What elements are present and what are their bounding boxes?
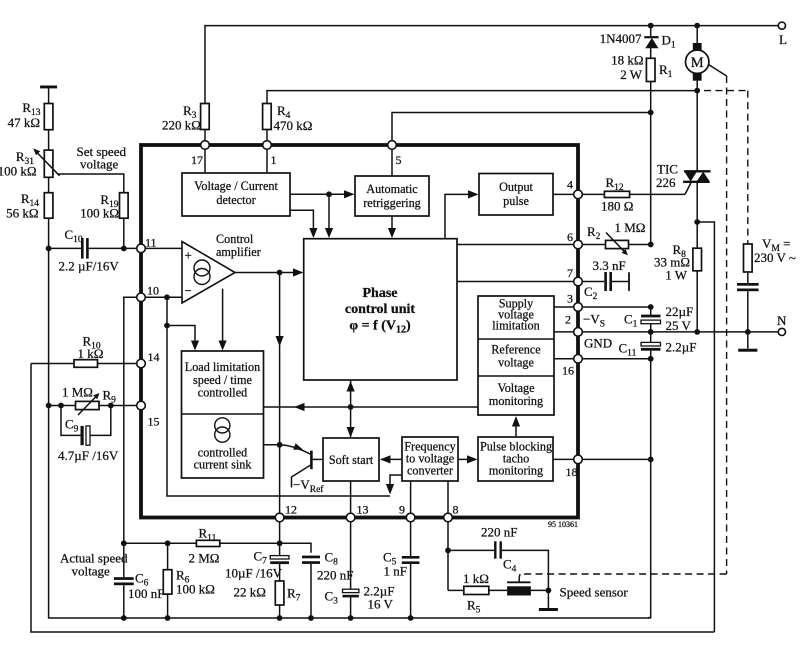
svg-text:100 nF: 100 nF xyxy=(128,586,164,601)
node: R2 junction xyxy=(648,242,654,248)
svg-text:1 MΩ: 1 MΩ xyxy=(615,220,646,235)
potentiometer R31 set speed xyxy=(0,148,60,192)
block: Load limitation speed/time controlled + controlled current sink xyxy=(182,351,264,478)
node: junction rail C3 bottom xyxy=(348,615,354,621)
pin 7 xyxy=(567,266,582,286)
svg-text:limitation: limitation xyxy=(492,319,539,333)
earth bar at N rail xyxy=(738,332,757,352)
wire: motor to triac xyxy=(696,91,698,172)
pin 17 xyxy=(191,141,209,167)
wire: pin 8 down xyxy=(447,518,449,591)
motor M xyxy=(686,26,709,91)
svg-text:22 kΩ: 22 kΩ xyxy=(234,585,266,600)
wire: R1 column down to R2 node xyxy=(650,113,652,245)
node: junction at soft-start transistor emitter xyxy=(277,442,283,448)
svg-text:3: 3 xyxy=(567,292,573,306)
block: Automatic retriggering xyxy=(355,176,429,216)
wire: pin 18 to column xyxy=(578,458,651,460)
node: junction on inverting input xyxy=(164,294,170,300)
wire: current sink to transistor emitter junction xyxy=(264,444,280,446)
pin 2 xyxy=(565,313,582,337)
block: Frequency to voltage converter xyxy=(402,437,458,481)
node: junction R6 top xyxy=(165,540,171,546)
svg-text:2 MΩ: 2 MΩ xyxy=(189,551,220,566)
svg-text:voltage: voltage xyxy=(72,564,110,579)
snubber wire xyxy=(747,272,749,283)
potentiometer R2 xyxy=(578,220,651,255)
svg-text:14: 14 xyxy=(148,350,160,364)
capacitor C6 xyxy=(114,543,165,618)
svg-text:1: 1 xyxy=(271,153,277,167)
wire: frequency converter output elbow with down arrow xyxy=(386,475,402,495)
wire: reference voltage to pin 16 xyxy=(554,358,578,360)
svg-text:56 kΩ: 56 kΩ xyxy=(6,206,38,221)
wire: triac to R8 node xyxy=(696,182,698,248)
wire: pin 11 to op-amp + input xyxy=(141,247,182,249)
svg-text:4: 4 xyxy=(567,178,573,192)
resistor R8 xyxy=(654,242,702,332)
node: junction on detector output xyxy=(326,191,332,197)
node: C1 top junction xyxy=(648,304,654,310)
svg-text:470 kΩ: 470 kΩ xyxy=(274,118,313,133)
capacitor C10 xyxy=(49,227,141,274)
wire: phase unit top to Output pulse with arrow xyxy=(445,190,479,238)
block: Phase control unit xyxy=(304,239,457,380)
node: junction R19 bottom xyxy=(121,246,127,252)
capacitor C2 xyxy=(578,258,630,302)
diode D1 1N4007 xyxy=(600,26,676,59)
svg-text:Speed sensor: Speed sensor xyxy=(560,585,629,600)
wire: pulse blocking to pin 18 xyxy=(553,458,578,460)
speed sensor xyxy=(507,582,628,599)
terminal N xyxy=(778,328,785,335)
node: junction pin16 row xyxy=(648,356,654,362)
wire: Output pulse to pin 4 xyxy=(553,193,578,195)
wire: pin 10 feedback to actual speed node xyxy=(124,297,141,543)
wire: freq converter down to pin 9 xyxy=(410,481,412,518)
svg-text:18: 18 xyxy=(566,465,578,479)
svg-text:voltage: voltage xyxy=(80,157,118,172)
wire: wiper tap to R19 xyxy=(58,174,124,193)
wire: R4 top rail xyxy=(267,91,697,108)
wire: elbow into load limitation box with arrow xyxy=(167,326,199,351)
internal wire: pin5 to Automatic retriggering xyxy=(391,145,393,176)
wire: pin5 sync rail xyxy=(392,113,651,146)
node: motor top junction xyxy=(694,23,700,29)
op-amp control amplifier xyxy=(182,232,261,303)
svg-text:Voltage: Voltage xyxy=(497,381,534,395)
svg-text:5: 5 xyxy=(396,153,402,167)
svg-text:−: − xyxy=(185,283,192,298)
pin 9 xyxy=(399,503,415,522)
capacitor C4 xyxy=(448,525,548,609)
svg-text:9: 9 xyxy=(399,503,405,517)
svg-text:+: + xyxy=(185,248,192,263)
wire: soft start down to pin 13 xyxy=(350,481,352,518)
svg-text:control unit: control unit xyxy=(345,302,415,317)
node: junction C9 right xyxy=(108,403,114,409)
potentiometer R9 xyxy=(49,385,141,416)
capacitor C5 xyxy=(383,550,419,619)
node: junction C4 left xyxy=(445,548,451,554)
svg-text:10: 10 xyxy=(147,284,159,298)
svg-text:monitoring: monitoring xyxy=(489,394,543,408)
wire: ground column down xyxy=(648,359,651,618)
svg-text:Load limitation: Load limitation xyxy=(185,360,260,374)
wire: phase unit to soft start vertical with both arrows xyxy=(347,380,355,438)
svg-text:8: 8 xyxy=(453,503,459,517)
node: junction triac bottom on N rail xyxy=(694,329,700,335)
node: junction feedback branch xyxy=(164,323,170,329)
node: junction pin18 row xyxy=(648,457,654,463)
block: Output pulse xyxy=(479,174,553,216)
pin 13 xyxy=(346,503,368,522)
wire: N rail xyxy=(578,331,778,333)
svg-text:pulse: pulse xyxy=(503,194,529,208)
resistor R7 xyxy=(234,581,301,618)
resistor R3 xyxy=(162,103,209,145)
wire: pin 16 GND to column xyxy=(578,358,651,360)
node: junction sensor right xyxy=(546,588,552,594)
wire: retriggering output down into phase control unit xyxy=(388,216,396,238)
wire: voltage monitoring to load limitation with left arrow xyxy=(264,403,479,411)
resistor R1 xyxy=(611,53,673,113)
svg-text:220 kΩ: 220 kΩ xyxy=(162,118,201,133)
wire: pin 3 to C1 xyxy=(578,306,651,308)
capacitor C9 electrolytic parallel loop xyxy=(58,406,119,464)
node: junction rail left C6 xyxy=(121,540,127,546)
wire: pin 13 down xyxy=(350,518,352,590)
pin 3 xyxy=(567,292,582,312)
resistor R5 xyxy=(448,571,507,616)
node: junction C9 left xyxy=(58,403,64,409)
pin 6 xyxy=(567,230,582,249)
svg-text:22µF: 22µF xyxy=(666,304,694,319)
capacitor C1 electrolytic xyxy=(624,304,693,333)
svg-text:17: 17 xyxy=(191,153,203,167)
wire: freq converter down to pin 8 xyxy=(447,481,449,518)
wire: op-amp underside into load limitation box with arrow xyxy=(219,289,227,351)
capacitor C8 xyxy=(302,550,353,619)
svg-text:retriggering: retriggering xyxy=(363,196,421,210)
node: D1 top junction xyxy=(648,23,654,29)
svg-text:1 nF: 1 nF xyxy=(384,564,407,579)
node: junction on monitoring line xyxy=(348,404,354,410)
wire: V/C detector output to retriggering with arrow xyxy=(290,190,355,198)
wire: phase unit to pin 6 xyxy=(457,244,578,246)
wire: pulse blocking up to voltage monitoring with arrow xyxy=(512,416,520,437)
svg-text:Automatic: Automatic xyxy=(366,182,418,196)
wire: pin 10 to op-amp - input xyxy=(141,296,182,298)
svg-text:1 kΩ: 1 kΩ xyxy=(463,571,489,586)
capacitor C11 electrolytic xyxy=(619,332,697,359)
internal wire: pin1 to V/C detector xyxy=(266,145,268,173)
svg-text:3.3 nF: 3.3 nF xyxy=(593,258,626,273)
wire: actual speed voltage rail xyxy=(124,543,311,553)
pin 4 xyxy=(567,178,582,199)
svg-text:18 kΩ: 18 kΩ xyxy=(611,53,643,68)
svg-text:100 kΩ: 100 kΩ xyxy=(176,582,215,597)
node: junction rail C8 bottom xyxy=(308,615,314,621)
svg-text:10µF /16V: 10µF /16V xyxy=(225,566,283,581)
svg-text:2: 2 xyxy=(565,313,571,327)
wire: op-amp output down to pin 12 with mid arrow xyxy=(276,273,284,518)
node: junction rail C5 bottom xyxy=(408,615,414,621)
node: junction R1 bottom rail xyxy=(648,110,654,116)
svg-text:current sink: current sink xyxy=(194,458,253,472)
dashed motor shaft link xyxy=(519,65,726,583)
node: junction rail C6 bottom xyxy=(121,615,127,621)
wire: supply limitation to pin 2 xyxy=(554,331,578,333)
svg-text:controlled: controlled xyxy=(198,386,247,400)
pin 18 xyxy=(566,455,583,479)
wire: V/C detector second output elbow into phase control unit xyxy=(290,210,318,238)
svg-text:230 V ~: 230 V ~ xyxy=(754,250,796,265)
wire: feedback line down to frequency converter xyxy=(167,326,390,497)
wire: sense line jog to rail xyxy=(697,222,714,632)
svg-text:Soft start: Soft start xyxy=(329,453,374,467)
svg-text:226: 226 xyxy=(656,175,676,190)
transistor Q1 soft start xyxy=(280,443,323,487)
wire: mains L rail top xyxy=(205,26,778,108)
pin 16 xyxy=(562,355,582,378)
svg-text:monitoring: monitoring xyxy=(489,464,543,478)
snubber network dashed feed xyxy=(704,90,748,92)
svg-text:1 MΩ: 1 MΩ xyxy=(62,385,93,400)
wire: column down to ground rail xyxy=(49,406,651,619)
pin 12 xyxy=(275,503,297,522)
svg-text:6: 6 xyxy=(567,230,573,244)
node: junction C10 left xyxy=(46,246,52,252)
wire: supply limitation to pin 3 xyxy=(554,306,578,308)
svg-text:16 V: 16 V xyxy=(368,597,394,612)
svg-text:95 10361: 95 10361 xyxy=(548,520,578,529)
svg-text:11: 11 xyxy=(145,236,157,250)
terminal L xyxy=(778,22,785,29)
capacitor C7 electrolytic xyxy=(225,543,289,581)
svg-text:12: 12 xyxy=(285,503,297,517)
svg-text:2.2µF: 2.2µF xyxy=(666,340,697,355)
resistor R19 xyxy=(80,192,128,248)
wire: junction down to load limitation branch xyxy=(166,297,168,325)
svg-text:2 W: 2 W xyxy=(620,67,643,82)
wire: pin 12 down to speed voltage rail xyxy=(279,518,281,544)
resistor R12 xyxy=(578,175,685,214)
svg-text:amplifier: amplifier xyxy=(216,245,261,259)
resistor R11 xyxy=(189,526,220,566)
snubber capacitor xyxy=(737,283,759,332)
svg-text:converter: converter xyxy=(407,464,453,478)
svg-text:13: 13 xyxy=(357,503,369,517)
svg-text:1 W: 1 W xyxy=(665,268,688,283)
svg-text:voltage: voltage xyxy=(498,356,534,370)
svg-text:Phase: Phase xyxy=(363,286,398,301)
node: junction rail R7 bottom xyxy=(277,615,283,621)
pin 14 xyxy=(137,350,160,368)
block: Supply voltage limitation / Reference voltage / Voltage monitoring stack xyxy=(478,296,554,415)
svg-text:180 Ω: 180 Ω xyxy=(601,199,633,214)
svg-text:1 kΩ: 1 kΩ xyxy=(78,346,104,361)
svg-text:16: 16 xyxy=(562,364,574,378)
node: op-amp output junction xyxy=(277,270,283,276)
svg-text:220 nF: 220 nF xyxy=(317,568,353,583)
svg-text:L: L xyxy=(779,32,787,47)
svg-text:2.2 µF/16V: 2.2 µF/16V xyxy=(59,259,120,274)
resistor R6 xyxy=(163,543,215,618)
pin 15 xyxy=(137,401,160,428)
pin 8 xyxy=(444,503,459,522)
svg-text:100 kΩ: 100 kΩ xyxy=(80,206,119,221)
svg-text:1N4007: 1N4007 xyxy=(600,31,642,46)
svg-text:220 nF: 220 nF xyxy=(481,525,517,540)
block: Soft start xyxy=(323,438,379,481)
resistor R13 xyxy=(8,100,53,150)
svg-text:M: M xyxy=(691,55,704,71)
svg-text:Control: Control xyxy=(216,232,254,246)
resistor R4 xyxy=(263,103,313,145)
wire: phase unit to pin 7 xyxy=(457,281,578,283)
internal wire: pin17 to V/C detector xyxy=(204,145,206,173)
node: junction pin12/C7 xyxy=(277,540,283,546)
svg-text:GND: GND xyxy=(584,336,612,351)
wire: pin 9 down xyxy=(410,518,412,557)
svg-text:47 kΩ: 47 kΩ xyxy=(8,115,40,130)
wire: junction down into phase control unit with arrow xyxy=(325,194,333,238)
svg-text:100 kΩ: 100 kΩ xyxy=(0,164,37,179)
ground bar speed sensor xyxy=(539,608,558,611)
svg-text:Voltage / Current: Voltage / Current xyxy=(194,179,278,193)
wire: freq converter to pulse blocking with right arrow xyxy=(458,455,478,463)
pin 11 xyxy=(137,236,157,253)
svg-text:25 V: 25 V xyxy=(666,318,692,333)
pin 10 xyxy=(137,284,159,302)
wire: freq converter to soft start with left arrow xyxy=(380,455,402,463)
resistor R10 xyxy=(31,334,141,368)
svg-text:Output: Output xyxy=(499,180,533,194)
svg-text:N: N xyxy=(777,313,787,328)
svg-text:15: 15 xyxy=(148,415,160,429)
wire: outer loop left xyxy=(31,364,714,633)
pin 5 xyxy=(388,141,402,167)
svg-text:7: 7 xyxy=(567,266,573,280)
capacitor C3 electrolytic xyxy=(325,584,395,619)
block: Voltage / Current detector xyxy=(182,173,290,216)
node: R8 top junction xyxy=(694,219,700,225)
block: Pulse blocking tacho monitoring xyxy=(478,437,553,481)
node: junction R9 left on column xyxy=(46,403,52,409)
node: junction C1/C11 on N rail xyxy=(648,329,654,335)
svg-text:detector: detector xyxy=(216,193,255,207)
snubber resistor xyxy=(744,244,753,272)
supply T-bar top left xyxy=(40,86,57,104)
triac TIC226 xyxy=(656,162,711,195)
node: motor bottom junction xyxy=(694,88,700,94)
node: junction snubber on N rail xyxy=(745,329,751,335)
wire: op-amp output to phase unit with arrow xyxy=(235,268,303,276)
svg-text:Reference: Reference xyxy=(491,343,540,357)
IC U1 thick border xyxy=(141,145,578,518)
svg-text:4.7µF /16V: 4.7µF /16V xyxy=(58,448,119,463)
pin 1 xyxy=(263,141,277,167)
node: junction rail R6 bottom xyxy=(165,615,171,621)
resistor R14 xyxy=(6,191,53,406)
